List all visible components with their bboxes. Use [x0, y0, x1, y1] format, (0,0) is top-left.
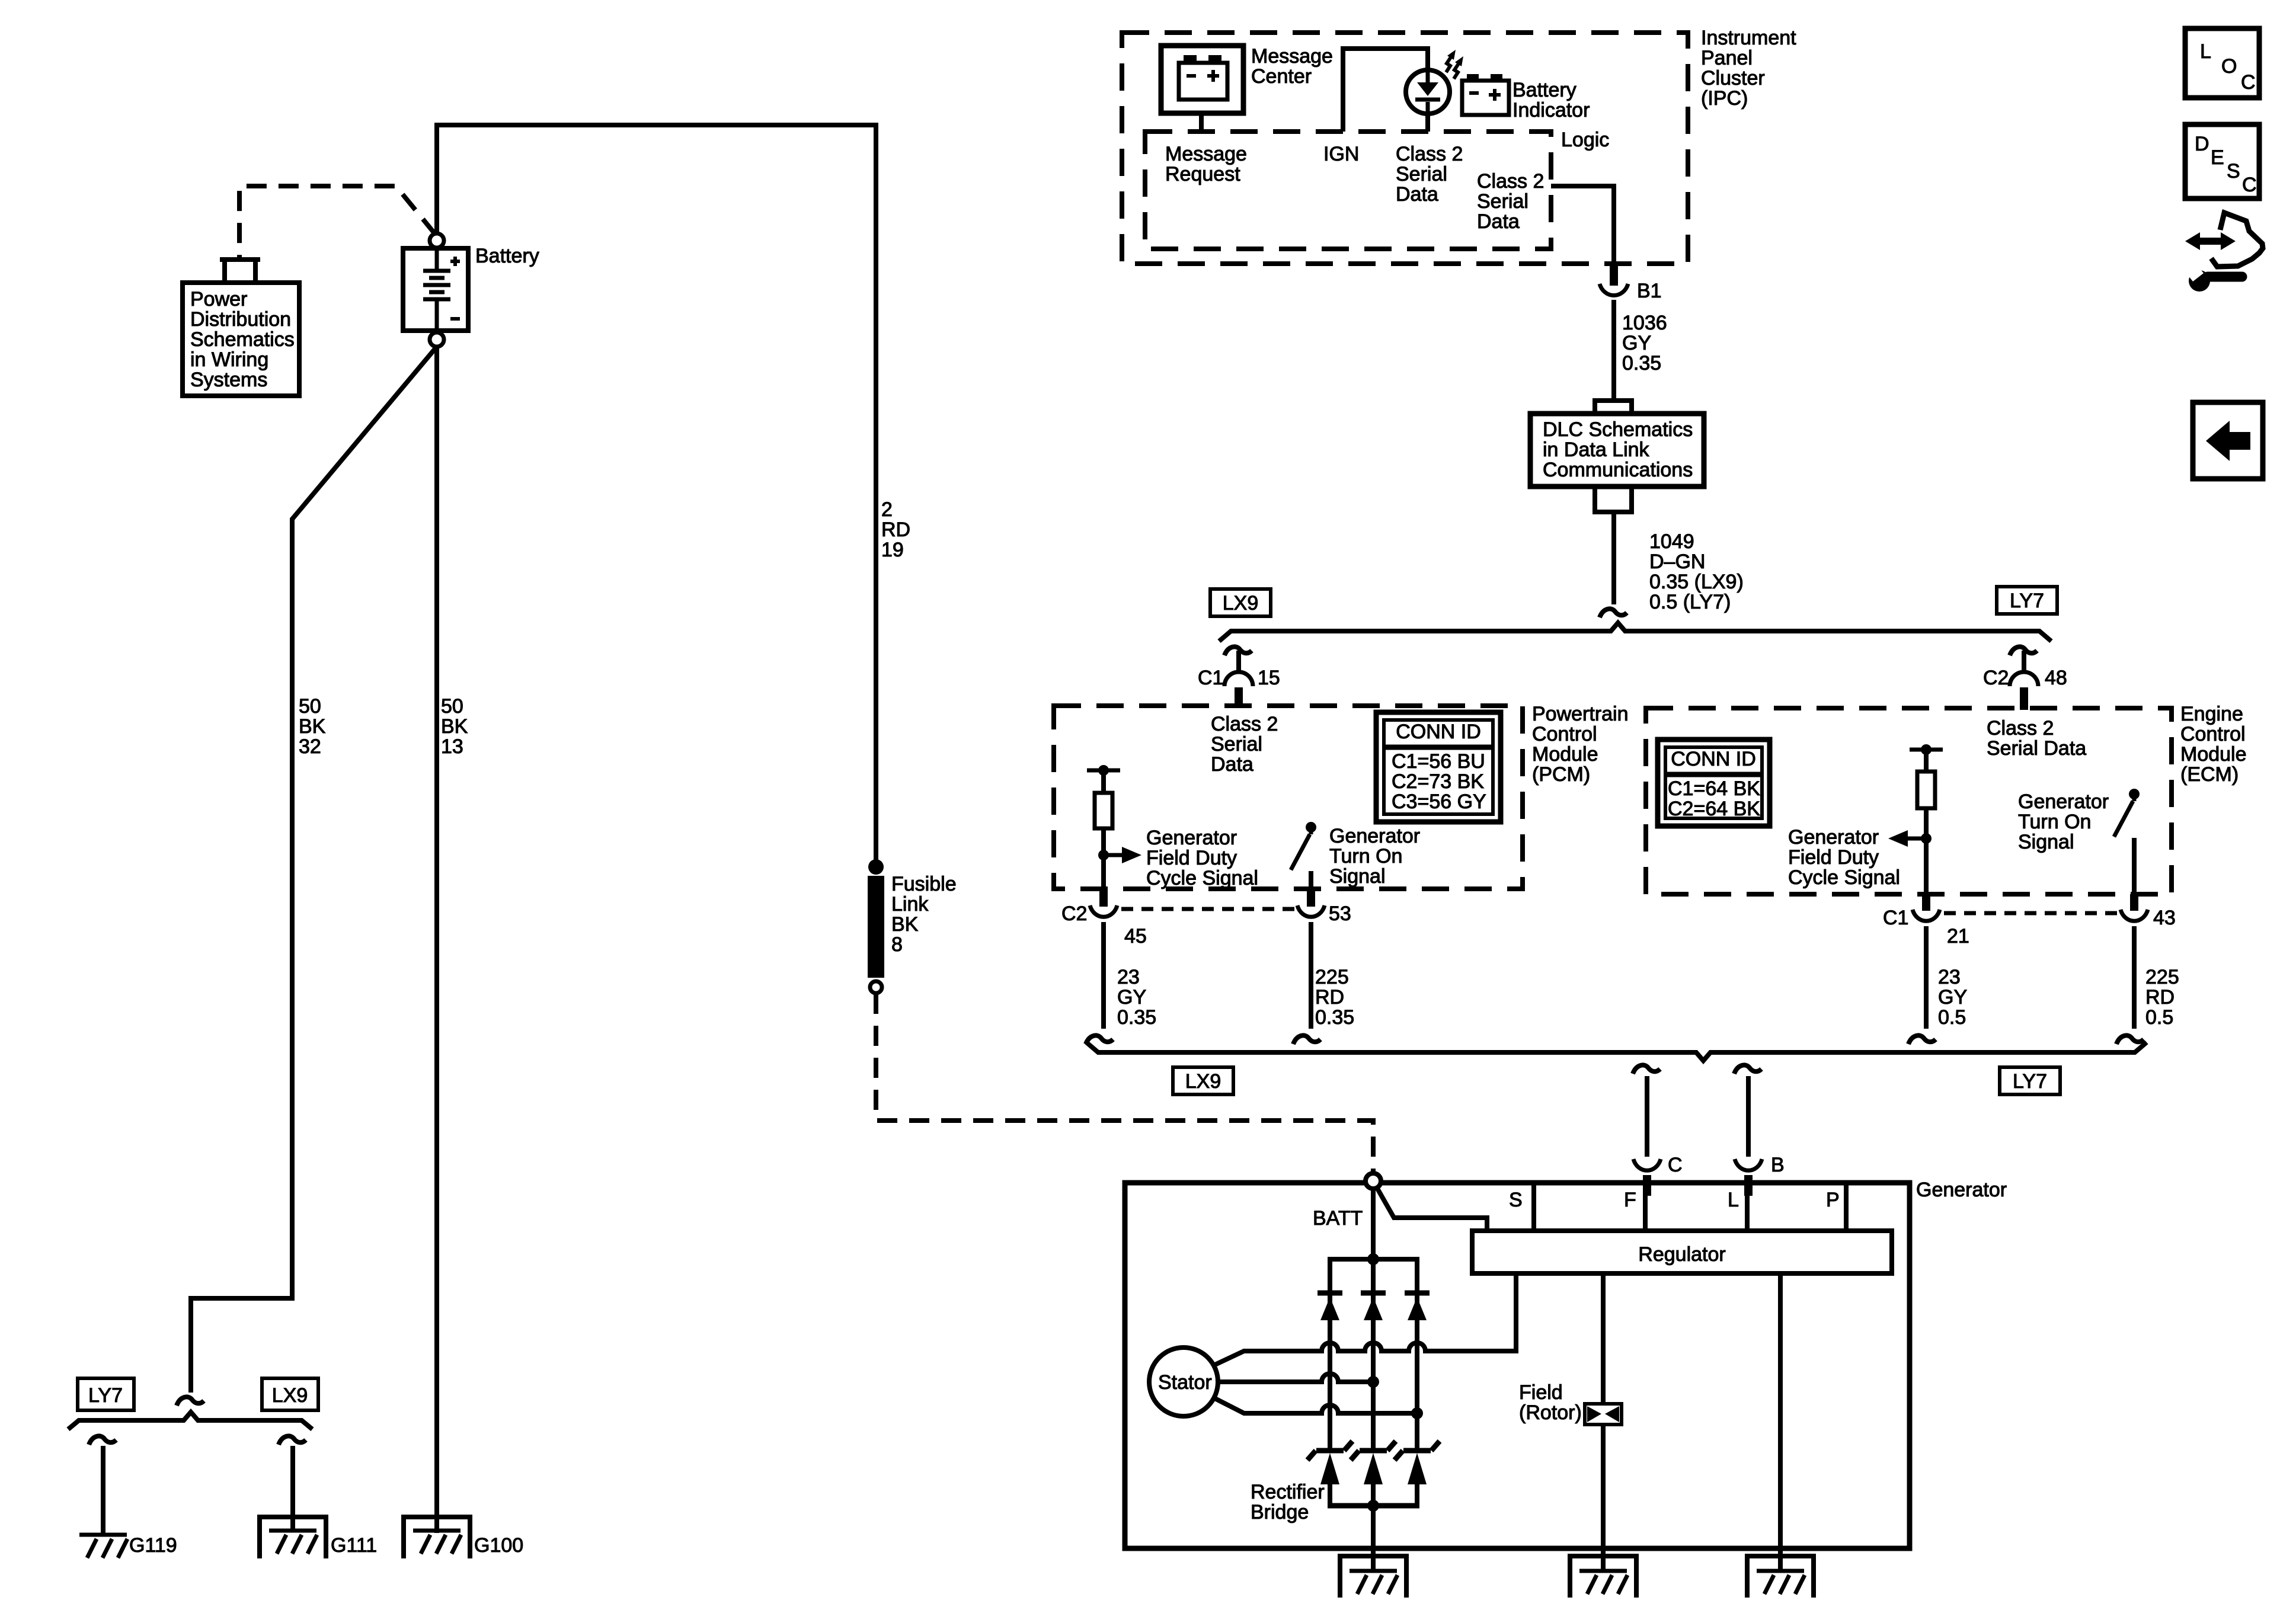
- ground bus splice: [68, 1412, 312, 1429]
- svg-text:1049: 1049: [1649, 530, 1694, 553]
- svg-text:in Data Link: in Data Link: [1543, 438, 1650, 461]
- svg-text:DLC Schematics: DLC Schematics: [1543, 418, 1693, 441]
- svg-text:Battery: Battery: [1512, 79, 1576, 101]
- ground bracket rectifier: [1340, 1556, 1406, 1598]
- connector cup B: [1735, 1159, 1762, 1170]
- label Battery Indicator: [1512, 79, 1590, 121]
- connector pin B1: [1610, 261, 1618, 286]
- tag LX9 bottom bus: [1173, 1067, 1233, 1094]
- rectifier bridge bottom bar: [1328, 1503, 1419, 1509]
- svg-text:Data: Data: [1396, 183, 1438, 206]
- wire 2 RD 19 battery positive to fusible link: [437, 125, 876, 866]
- label wire 225 RD 0.5: [2145, 966, 2179, 1029]
- connector C2 48 pin and dome: [2010, 651, 2038, 710]
- stator phase 2 wire: [1218, 1374, 1373, 1382]
- svg-text:1036: 1036: [1622, 312, 1667, 334]
- wire 23 GY 0.35: [1086, 922, 1113, 1044]
- bus splice LX9 LY7 bottom: [1086, 1042, 2147, 1061]
- wire IGN to indicator LED: [1343, 49, 1428, 132]
- svg-text:Distribution: Distribution: [190, 308, 291, 331]
- label wire 23 GY 0.35: [1117, 966, 1156, 1029]
- label C1: [1198, 667, 1223, 689]
- svg-text:0.35: 0.35: [1117, 1006, 1156, 1029]
- label B: [1771, 1154, 1785, 1176]
- svg-text:Cycle Signal: Cycle Signal: [1788, 866, 1900, 889]
- svg-text:2: 2: [881, 498, 893, 521]
- ground G111 case bracket: [260, 1517, 326, 1558]
- label Logic: [1561, 129, 1609, 151]
- node rectifier top junction: [1367, 1253, 1379, 1265]
- svg-text:53: 53: [1329, 902, 1351, 925]
- svg-text:13: 13: [441, 735, 463, 758]
- connector cup C: [1633, 1159, 1661, 1170]
- arrow generator field duty cycle signal PCM: [1104, 847, 1141, 863]
- rectifier column 3: [1415, 1259, 1419, 1450]
- svg-text:Fusible: Fusible: [891, 873, 957, 895]
- label G100: [474, 1534, 523, 1557]
- svg-text:LX9: LX9: [1223, 592, 1259, 614]
- node ECM field duty junction: [1921, 833, 1932, 844]
- wire dashed to power distribution: [239, 186, 436, 257]
- tag LX9 top bus: [1210, 589, 1271, 616]
- svg-text:Data: Data: [1477, 210, 1520, 233]
- svg-text:E: E: [2211, 146, 2224, 169]
- svg-text:Serial: Serial: [1211, 733, 1262, 756]
- svg-text:G100: G100: [474, 1534, 523, 1557]
- tag LY7 bottom left: [78, 1378, 134, 1410]
- svg-text:Field Duty: Field Duty: [1146, 847, 1237, 869]
- svg-text:0.35: 0.35: [1315, 1006, 1354, 1029]
- connector pin 53: [1307, 889, 1315, 907]
- label Field (Rotor): [1519, 1381, 1582, 1424]
- label Class 2 Serial Data ECM: [1987, 717, 2086, 760]
- field rotor coil: [1585, 1404, 1622, 1425]
- connector squiggle into ground bus: [177, 1397, 204, 1406]
- battery indicator icon: [1462, 74, 1509, 115]
- label 43: [2153, 907, 2176, 929]
- ground G100: [413, 1531, 461, 1554]
- powertrain control module dashed box: [1054, 706, 1523, 889]
- svg-text:Class 2: Class 2: [1477, 170, 1544, 193]
- wire field to ground: [1601, 1425, 1606, 1571]
- svg-text:Control: Control: [2180, 723, 2246, 745]
- svg-text:P: P: [1826, 1189, 1840, 1211]
- label S: [1509, 1189, 1523, 1211]
- svg-text:C1=64 BK: C1=64 BK: [1668, 777, 1760, 800]
- svg-text:Module: Module: [2180, 743, 2247, 766]
- svg-text:0.5: 0.5: [2145, 1006, 2173, 1029]
- label 53: [1329, 902, 1351, 925]
- svg-text:50: 50: [441, 695, 463, 718]
- svg-text:Engine: Engine: [2180, 703, 2243, 725]
- svg-text:Request: Request: [1165, 163, 1240, 185]
- svg-text:Serial Data: Serial Data: [1987, 737, 2086, 760]
- svg-text:Control: Control: [1532, 723, 1597, 745]
- svg-text:Cluster: Cluster: [1701, 67, 1765, 89]
- svg-text:(IPC): (IPC): [1701, 87, 1748, 110]
- svg-text:8: 8: [891, 933, 903, 956]
- label Generator: [1916, 1179, 2007, 1201]
- label Message Request: [1165, 143, 1247, 185]
- svg-text:L: L: [2200, 40, 2211, 63]
- svg-text:D–GN: D–GN: [1649, 550, 1705, 573]
- ECM field duty resistor branch top tick: [1910, 744, 1943, 755]
- label wire 23 GY 0.5: [1938, 966, 1967, 1029]
- connector pin C2 45: [1099, 889, 1108, 907]
- svg-text:BK: BK: [299, 715, 326, 738]
- node rectifier bottom junction: [1367, 1500, 1379, 1512]
- connector pin C: [1643, 1175, 1651, 1196]
- LED battery indicator lamp: [1406, 70, 1450, 114]
- svg-text:BK: BK: [441, 715, 468, 738]
- switch generator turn on signal PCM: [1291, 822, 1316, 889]
- label IGN: [1323, 143, 1359, 165]
- svg-text:Systems: Systems: [190, 369, 267, 391]
- diode upper 2: [1361, 1293, 1386, 1320]
- svg-text:Class 2: Class 2: [1211, 713, 1278, 735]
- icon LOC box: [2185, 28, 2259, 98]
- svg-text:IGN: IGN: [1323, 143, 1359, 165]
- label 21: [1947, 925, 1969, 948]
- svg-text:LY7: LY7: [2010, 590, 2044, 612]
- svg-text:Turn On: Turn On: [2018, 811, 2091, 833]
- svg-text:19: 19: [881, 539, 904, 561]
- icon double arrow: [2185, 232, 2236, 250]
- svg-text:C1=56 BU: C1=56 BU: [1392, 750, 1485, 773]
- logic dashed box: [1145, 132, 1551, 249]
- label Engine Control Module (ECM): [2180, 703, 2247, 786]
- svg-text:L: L: [1728, 1189, 1739, 1211]
- svg-text:Data: Data: [1211, 753, 1253, 776]
- wire regulator to ground: [1778, 1273, 1783, 1571]
- ground field: [1579, 1571, 1627, 1594]
- svg-text:Signal: Signal: [2018, 831, 2074, 853]
- label L: [1728, 1189, 1739, 1211]
- label C2 PCM: [1061, 902, 1087, 925]
- connector C2 48 squiggle: [2010, 646, 2037, 655]
- svg-text:Generator: Generator: [1329, 825, 1420, 847]
- svg-text:Generator: Generator: [1788, 826, 1879, 849]
- connector C1 15 squiggle: [1224, 646, 1252, 655]
- dashed connector body PCM: [1121, 907, 1294, 911]
- message center box: [1161, 46, 1243, 113]
- svg-text:LY7: LY7: [2013, 1070, 2047, 1093]
- svg-text:(ECM): (ECM): [2180, 763, 2239, 786]
- ground regulator: [1757, 1571, 1805, 1594]
- rectifier bridge top bar: [1328, 1257, 1419, 1262]
- wire 225 RD 0.5: [2116, 926, 2144, 1044]
- connector squiggle to G111: [279, 1436, 306, 1445]
- label B1: [1637, 280, 1662, 302]
- icon DESC box: [2185, 124, 2259, 199]
- svg-text:C2=73 BK: C2=73 BK: [1392, 770, 1484, 793]
- connector cup C1 21: [1913, 910, 1940, 921]
- svg-text:23: 23: [1938, 966, 1961, 988]
- wire rectifier to ground: [1371, 1506, 1376, 1571]
- connector bracket power distribution: [220, 260, 260, 283]
- LED light arrows: [1446, 50, 1463, 79]
- label Class 2 Serial Data left: [1396, 143, 1463, 206]
- svg-text:C2: C2: [1061, 902, 1087, 925]
- connector pin B: [1744, 1175, 1753, 1196]
- message center battery icon: [1179, 55, 1227, 100]
- label Battery: [475, 245, 539, 267]
- label Generator Field Duty Cycle Signal PCM: [1146, 827, 1258, 889]
- svg-text:Field: Field: [1519, 1381, 1563, 1404]
- wire 1049 D-GN: [1611, 512, 1616, 604]
- svg-text:Rectifier: Rectifier: [1251, 1481, 1325, 1503]
- svg-text:CONN ID: CONN ID: [1671, 748, 1756, 770]
- svg-text:21: 21: [1947, 925, 1969, 948]
- label 45: [1124, 925, 1147, 948]
- rectifier lower columns: [1330, 1484, 1417, 1506]
- generator box: [1125, 1183, 1910, 1548]
- svg-text:C: C: [2241, 71, 2256, 94]
- box Power Distribution Schematics in Wiring Systems: [183, 283, 299, 396]
- wire to G119: [101, 1446, 105, 1534]
- svg-text:GY: GY: [1117, 986, 1146, 1009]
- label wire 225 RD 0.35: [1315, 966, 1354, 1029]
- label Class 2 Serial Data PCM: [1211, 713, 1278, 776]
- wire class 2 serial data out of IPC: [1551, 186, 1614, 261]
- stator: [1149, 1347, 1218, 1416]
- wire to G111: [290, 1446, 295, 1529]
- wire message center to logic: [1199, 113, 1204, 132]
- connector pin 43: [2130, 894, 2138, 911]
- switch generator turn on signal ECM: [2114, 789, 2140, 894]
- label Class 2 Serial Data right: [1477, 170, 1544, 233]
- svg-text:Communications: Communications: [1543, 459, 1693, 481]
- svg-text:Class 2: Class 2: [1396, 143, 1463, 165]
- ground G111: [269, 1531, 317, 1554]
- svg-text:45: 45: [1124, 925, 1147, 948]
- rectifier column 2: [1371, 1259, 1376, 1450]
- svg-text:Schematics: Schematics: [190, 328, 295, 351]
- wire 1036 GY 0.35: [1611, 300, 1616, 398]
- zener diode lower 1: [1307, 1441, 1352, 1484]
- svg-text:43: 43: [2153, 907, 2176, 929]
- svg-text:C1: C1: [1883, 907, 1908, 929]
- connector C1 15 pin and dome: [1224, 651, 1253, 708]
- svg-text:Regulator: Regulator: [1638, 1243, 1725, 1266]
- box DLC Schematics in Data Link Communications: [1530, 414, 1704, 486]
- svg-text:RD: RD: [881, 518, 910, 541]
- svg-text:in Wiring: in Wiring: [190, 348, 268, 371]
- zener diode lower 2: [1351, 1441, 1396, 1484]
- svg-text:B1: B1: [1637, 280, 1662, 302]
- label Generator Turn On Signal ECM: [2018, 790, 2109, 853]
- svg-text:Logic: Logic: [1561, 129, 1609, 151]
- label Message Center: [1251, 45, 1333, 88]
- node generator BATT terminal: [1366, 1173, 1381, 1189]
- icon zigzag outline: [2211, 213, 2263, 267]
- svg-text:Message: Message: [1165, 143, 1247, 165]
- svg-text:LY7: LY7: [88, 1384, 123, 1407]
- bus splice LX9 LY7 top: [1219, 623, 2051, 641]
- svg-text:C2=64 BK: C2=64 BK: [1668, 798, 1760, 820]
- terminal dividers S F L P: [1534, 1183, 1846, 1231]
- conn id table PCM: [1376, 712, 1501, 822]
- svg-text:Turn On: Turn On: [1329, 845, 1402, 868]
- label Fusible Link BK 8: [891, 873, 957, 956]
- svg-text:Bridge: Bridge: [1251, 1501, 1309, 1523]
- svg-text:Generator: Generator: [1916, 1179, 2007, 1201]
- connector cup C2 45: [1090, 905, 1117, 917]
- node phase 3 junction: [1411, 1407, 1423, 1419]
- terminal staple into DLC: [1595, 401, 1632, 414]
- label Generator Turn On Signal PCM: [1329, 825, 1420, 888]
- label P: [1826, 1189, 1840, 1211]
- svg-text:Message: Message: [1251, 45, 1333, 68]
- svg-text:GY: GY: [1938, 986, 1967, 1009]
- wire 50 BK 32 battery negative to ground bus: [191, 347, 437, 1393]
- svg-text:BATT: BATT: [1313, 1207, 1363, 1230]
- svg-text:Battery: Battery: [475, 245, 539, 267]
- ground rectifier: [1350, 1571, 1398, 1594]
- zener diode lower 3: [1395, 1441, 1440, 1484]
- label wire 50 BK 32: [299, 695, 326, 758]
- ground G100 case bracket: [404, 1517, 470, 1558]
- svg-text:Cycle Signal: Cycle Signal: [1146, 867, 1258, 889]
- svg-text:BK: BK: [891, 913, 919, 936]
- svg-text:LX9: LX9: [272, 1384, 308, 1407]
- label wire 50 BK 13: [441, 695, 468, 758]
- svg-text:0.5: 0.5: [1938, 1006, 1966, 1029]
- tag LY7 bottom bus: [2000, 1067, 2060, 1094]
- label G111: [331, 1534, 377, 1557]
- label Rectifier Bridge: [1251, 1481, 1325, 1523]
- svg-text:G119: G119: [129, 1534, 177, 1557]
- diode upper 3: [1405, 1293, 1430, 1320]
- ground bracket field: [1570, 1556, 1636, 1598]
- svg-text:C2: C2: [1983, 667, 2009, 689]
- stator phase 3 wire: [1215, 1398, 1417, 1413]
- connector squiggle into LX9 LY7 bus: [1600, 609, 1627, 617]
- wire LED to logic: [1425, 114, 1430, 132]
- svg-text:32: 32: [299, 735, 321, 758]
- wire BATT to rectifier bridge: [1371, 1189, 1376, 1259]
- svg-text:(Rotor): (Rotor): [1519, 1401, 1582, 1424]
- svg-text:RD: RD: [2145, 986, 2175, 1009]
- svg-text:C3=56 GY: C3=56 GY: [1392, 790, 1486, 813]
- label G119: [129, 1534, 177, 1557]
- label wire 1049 D-GN 0.35 0.5: [1649, 530, 1744, 613]
- icon back arrow box: [2193, 402, 2263, 479]
- node phase 2 junction: [1367, 1376, 1379, 1388]
- tag LY7 top bus: [1997, 587, 2057, 614]
- ground G119: [79, 1535, 127, 1558]
- svg-text:Module: Module: [1532, 743, 1598, 766]
- svg-text:C: C: [1668, 1154, 1683, 1176]
- svg-text:0.35 (LX9): 0.35 (LX9): [1649, 571, 1744, 593]
- wire 225 RD 0.35: [1293, 922, 1320, 1044]
- svg-text:Field Duty: Field Duty: [1788, 846, 1879, 869]
- svg-text:Generator: Generator: [1146, 827, 1237, 849]
- svg-text:C1: C1: [1198, 667, 1223, 689]
- engine control module dashed box: [1646, 708, 2172, 894]
- connector cup B1: [1600, 284, 1628, 295]
- svg-text:Serial: Serial: [1477, 190, 1528, 213]
- regulator box: [1472, 1231, 1892, 1273]
- wire 23 GY 0.5: [1908, 926, 1936, 1044]
- wire BATT to S terminal: [1377, 1188, 1487, 1231]
- svg-text:Panel: Panel: [1701, 47, 1753, 69]
- battery: [403, 248, 468, 331]
- svg-text:50: 50: [299, 695, 321, 718]
- svg-text:Generator: Generator: [2018, 790, 2109, 813]
- svg-text:Power: Power: [190, 288, 247, 311]
- svg-text:Link: Link: [891, 893, 929, 916]
- label C1 ECM: [1883, 907, 1908, 929]
- arrow generator field duty cycle signal ECM: [1888, 830, 1926, 847]
- svg-text:15: 15: [1258, 667, 1280, 689]
- svg-text:23: 23: [1117, 966, 1140, 988]
- svg-text:C: C: [2242, 174, 2257, 196]
- connector pin C1 21: [1922, 894, 1930, 911]
- resistor PCM generator field duty: [1095, 770, 1112, 889]
- svg-text:Instrument: Instrument: [1701, 27, 1796, 49]
- label 15: [1258, 667, 1280, 689]
- svg-text:Powertrain: Powertrain: [1532, 703, 1629, 725]
- svg-text:CONN ID: CONN ID: [1396, 721, 1481, 743]
- svg-text:F: F: [1624, 1189, 1636, 1211]
- svg-text:0.5 (LY7): 0.5 (LY7): [1649, 591, 1731, 613]
- rectifier column 1: [1328, 1259, 1332, 1450]
- wire bus to generator B terminal: [1734, 1065, 1761, 1157]
- label BATT: [1313, 1207, 1363, 1230]
- connector cup 53: [1297, 905, 1325, 917]
- node fusible link junction: [868, 859, 884, 875]
- svg-text:48: 48: [2045, 667, 2067, 689]
- svg-text:Indicator: Indicator: [1512, 99, 1590, 121]
- stator phase 1 wire: [1214, 1273, 1516, 1365]
- svg-text:225: 225: [1315, 966, 1349, 988]
- wire 50 BK 13 battery negative to G100: [434, 347, 439, 1533]
- node fusible link bottom terminal: [870, 981, 882, 993]
- wire bus to generator C terminal: [1633, 1065, 1660, 1157]
- wire regulator to field: [1601, 1273, 1606, 1404]
- tag LX9 bottom left: [262, 1378, 318, 1410]
- svg-text:RD: RD: [1315, 986, 1344, 1009]
- connector cup 43: [2121, 910, 2148, 921]
- svg-text:Serial: Serial: [1396, 163, 1447, 185]
- icon wrench: [2186, 264, 2242, 292]
- svg-text:LX9: LX9: [1185, 1070, 1221, 1093]
- dashed connector body ECM: [1944, 911, 2117, 916]
- svg-text:Stator: Stator: [1158, 1371, 1212, 1394]
- label wire 1036 GY 0.35: [1622, 312, 1667, 375]
- node PCM field duty junction: [1098, 850, 1109, 860]
- label 48: [2045, 667, 2067, 689]
- svg-text:GY: GY: [1622, 332, 1651, 354]
- svg-text:G111: G111: [331, 1534, 377, 1557]
- instrument panel cluster dashed box: [1122, 33, 1688, 264]
- ground bracket regulator: [1747, 1556, 1814, 1598]
- wire dashed fusible link to generator BATT: [876, 994, 1373, 1172]
- label Powertrain Control Module (PCM): [1532, 703, 1629, 786]
- terminal staple out of DLC: [1595, 486, 1632, 512]
- label F: [1624, 1189, 1636, 1211]
- label wire 2 RD 19: [881, 498, 910, 561]
- label Instrument Panel Cluster (IPC): [1701, 27, 1796, 110]
- diode upper 1: [1318, 1293, 1342, 1320]
- svg-text:O: O: [2221, 55, 2237, 78]
- label C: [1668, 1154, 1683, 1176]
- connector squiggle to G119: [89, 1436, 116, 1445]
- svg-text:(PCM): (PCM): [1532, 763, 1590, 786]
- svg-text:Center: Center: [1251, 65, 1312, 88]
- svg-text:0.35: 0.35: [1622, 352, 1661, 375]
